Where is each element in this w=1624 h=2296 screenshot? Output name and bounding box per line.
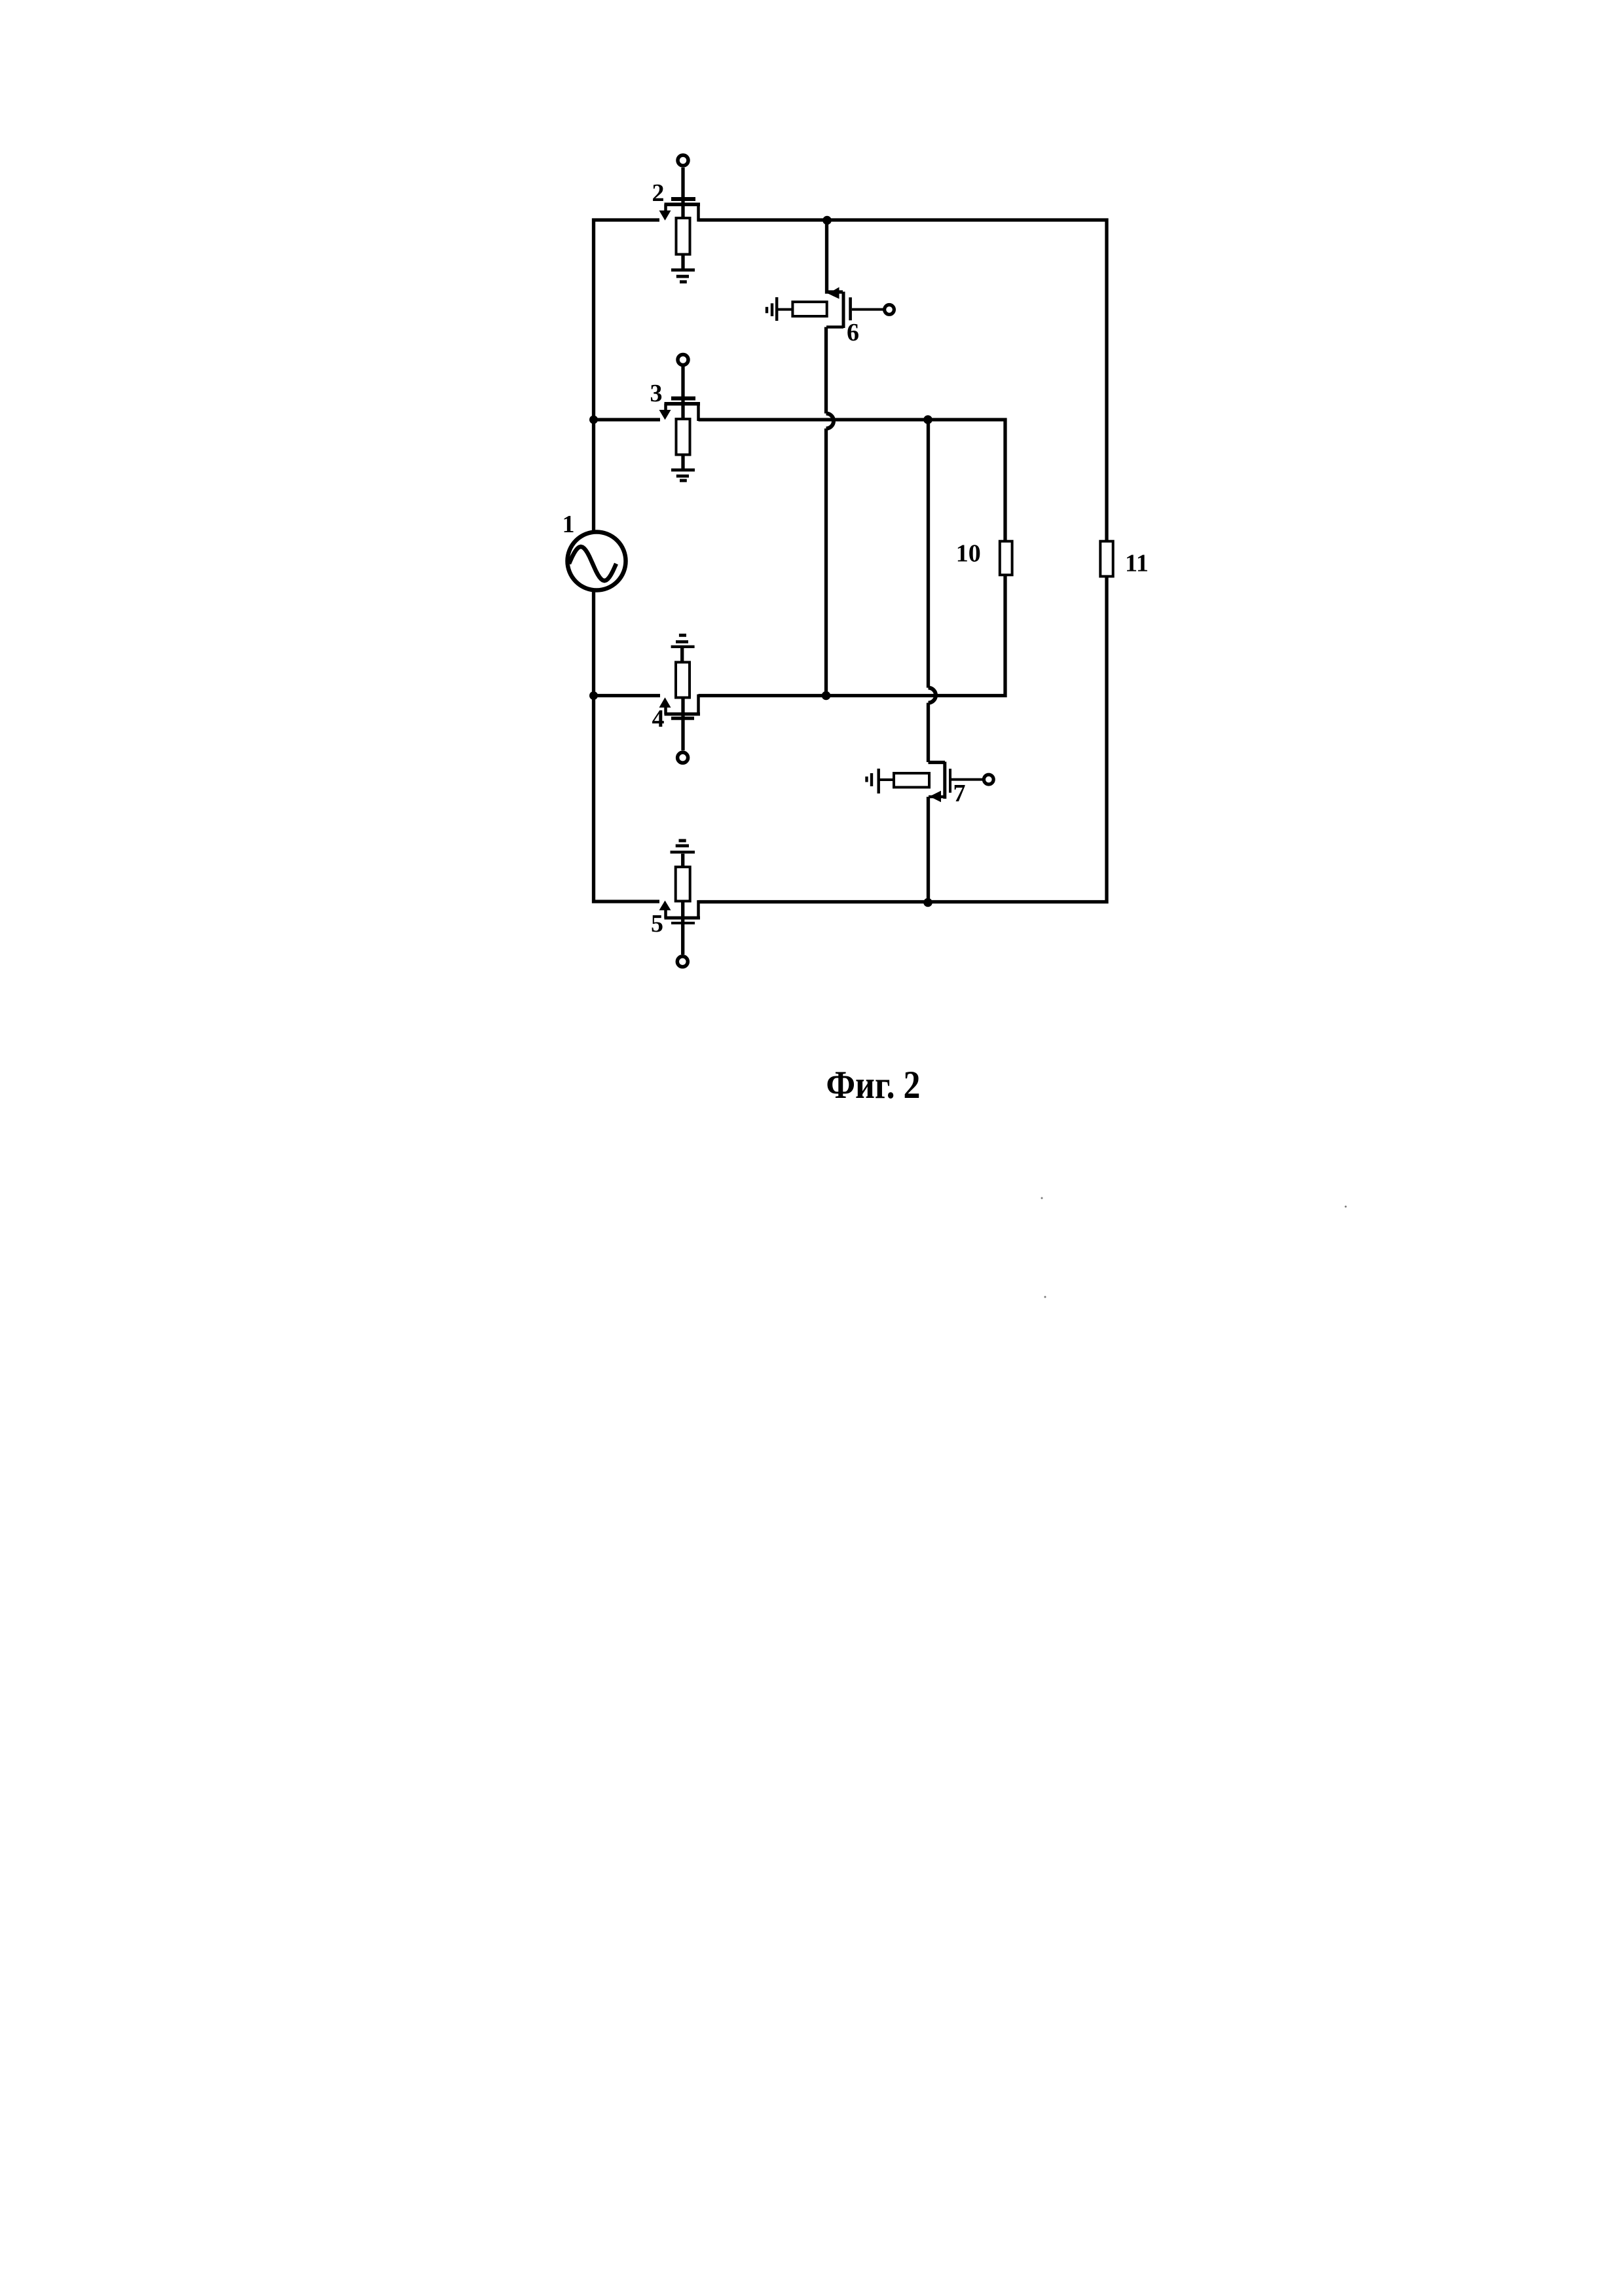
svg-text:10: 10 xyxy=(956,540,981,568)
transistor 3: gate/bulk center lead xyxy=(681,367,684,419)
wire: row A right segment, top-right corner, right bus upper (to resistor 11) xyxy=(699,220,1107,541)
wire: transistor 6 source line down to row C (with hop over row B) xyxy=(826,327,834,696)
transistor 5: source arrow (points up) xyxy=(659,901,671,911)
transistor 6: drain arrow (points left) xyxy=(828,287,840,299)
resistor (bulk bias of transistor 7) xyxy=(894,773,929,788)
resistor of transistor 2 bulk xyxy=(676,218,690,255)
svg-text:11: 11 xyxy=(1125,550,1149,577)
ground (sideways, left of transistor 7) xyxy=(867,769,879,793)
wire: transistor 6 source horizontal xyxy=(826,325,843,329)
transistor 4: terminal circle xyxy=(678,752,688,763)
transistor 2: channel bar xyxy=(665,203,701,207)
transistor 6: gate bar xyxy=(849,297,852,320)
wire: ground to resistor of transistor 7 xyxy=(880,778,895,781)
transistor 4: channel bar xyxy=(665,712,701,716)
resistor (bulk bias of transistor 6) xyxy=(792,302,826,316)
transistor 7: gate terminal circle xyxy=(984,774,993,784)
junction: row B / left bus xyxy=(589,416,598,424)
transistor 3: channel bar xyxy=(665,402,701,406)
transistor 3: terminal circle xyxy=(678,355,688,365)
ground (below transistor 2) xyxy=(671,270,695,282)
resistor of transistor 5 bulk xyxy=(676,867,690,901)
svg-text:2: 2 xyxy=(652,179,665,207)
transistor 3: gate bar xyxy=(671,397,695,401)
transistor 6: channel bar xyxy=(842,292,845,329)
transistor 5: gate/bulk center lead xyxy=(681,901,684,955)
ground (below transistor 3) xyxy=(671,470,695,481)
wire: transistor 7 gate lead xyxy=(951,778,983,781)
wire: transistor 7 source line down to row E xyxy=(927,797,930,902)
scan speck 1 xyxy=(1041,1197,1043,1199)
wire: row C left segment (node of transistors 1-4) xyxy=(594,694,661,697)
junction: row C / left bus xyxy=(589,691,598,700)
wire: transistor 7 source horizontal xyxy=(929,795,945,799)
junction: transistor 7 source / row E xyxy=(923,898,932,907)
junction: transistor 7 drain / row B xyxy=(923,415,932,424)
transistor 4: source stem xyxy=(664,707,667,715)
scan speck 2 xyxy=(1345,1206,1347,1208)
resistor of transistor 4 bulk xyxy=(676,663,690,698)
transistor 7: source arrow (points left) xyxy=(930,791,942,803)
transistor 2: source stem xyxy=(664,204,667,211)
transistor 5: terminal circle xyxy=(677,957,688,967)
transistor 5: channel bar xyxy=(665,917,701,920)
transistor 5: source stem xyxy=(664,910,667,919)
wire: right bus lower (from resistor 11), bottom-right corner, row E right segment xyxy=(699,576,1107,902)
scan speck 3 xyxy=(1044,1296,1046,1298)
transistor 5: gate bar xyxy=(671,922,695,924)
ground (inverted, above transistor 4) xyxy=(671,635,695,647)
svg-text:6: 6 xyxy=(847,319,859,346)
svg-text:1: 1 xyxy=(563,511,575,538)
transistor 4: drain lead xyxy=(697,695,700,715)
resistor of transistor 3 bulk xyxy=(676,419,690,455)
wire: row C right segment and resistor 10 bottom branch xyxy=(699,575,1006,696)
svg-text:7: 7 xyxy=(953,780,966,807)
resistor 11 xyxy=(1100,541,1113,577)
svg-text:Фиг. 2: Фиг. 2 xyxy=(826,1063,921,1106)
wire: top-left corner, row A left segment and left bus upper half xyxy=(594,220,660,532)
ground (sideways, left of transistor 6) xyxy=(767,297,777,321)
transistor 2: source arrow (points down) xyxy=(659,211,671,221)
wire: transistor 6 gate lead xyxy=(852,308,883,311)
wire: ground to resistor of transistor 6 xyxy=(778,308,793,311)
transistor 3: drain lead xyxy=(697,404,700,422)
wire: resistor 2 to ground xyxy=(681,255,684,270)
svg-text:3: 3 xyxy=(650,380,663,407)
wire: ground to resistor 4 xyxy=(680,648,684,663)
transistor 2: gate bar xyxy=(671,197,695,201)
transistor 3: source stem xyxy=(664,404,667,411)
svg-text:4: 4 xyxy=(652,705,665,733)
ground (inverted, above transistor 5) xyxy=(671,841,695,852)
wire: ground to resistor 5 xyxy=(681,854,684,867)
wire: row B right segment to resistor 10 top branch xyxy=(699,420,1006,541)
transistor 4: gate/bulk center lead xyxy=(681,698,684,751)
transistor 3: source arrow (points down) xyxy=(659,410,671,420)
svg-text:5: 5 xyxy=(651,910,663,938)
transistor 2: drain lead xyxy=(697,204,700,222)
transistor 4: gate bar xyxy=(671,717,694,720)
transistor 7: channel bar xyxy=(943,762,946,799)
transistor 7: gate bar xyxy=(949,769,951,793)
transistor 2: gate/bulk center lead xyxy=(681,168,684,219)
transistor 5: drain lead xyxy=(697,900,700,919)
wire: row B left segment (node of transistors 1-3) xyxy=(594,418,661,421)
resistor 10 xyxy=(1000,541,1012,575)
wire: resistor 3 to ground xyxy=(681,455,684,469)
wire: left bus lower half and row E left segment xyxy=(594,590,660,902)
wire: transistor 6 drain line from row A xyxy=(827,220,843,292)
transistor 4: source arrow (points up) xyxy=(659,697,671,708)
wire: transistor 7 drain line from row B (with hop over row C) xyxy=(929,420,946,763)
transistor 2: terminal circle xyxy=(678,155,688,166)
junction: transistor 6 source / row C xyxy=(822,691,831,701)
signal source 1 (sine generator) xyxy=(568,532,626,591)
junction: transistor 6 drain / row A xyxy=(822,216,832,225)
transistor 6: gate terminal circle xyxy=(885,305,895,315)
